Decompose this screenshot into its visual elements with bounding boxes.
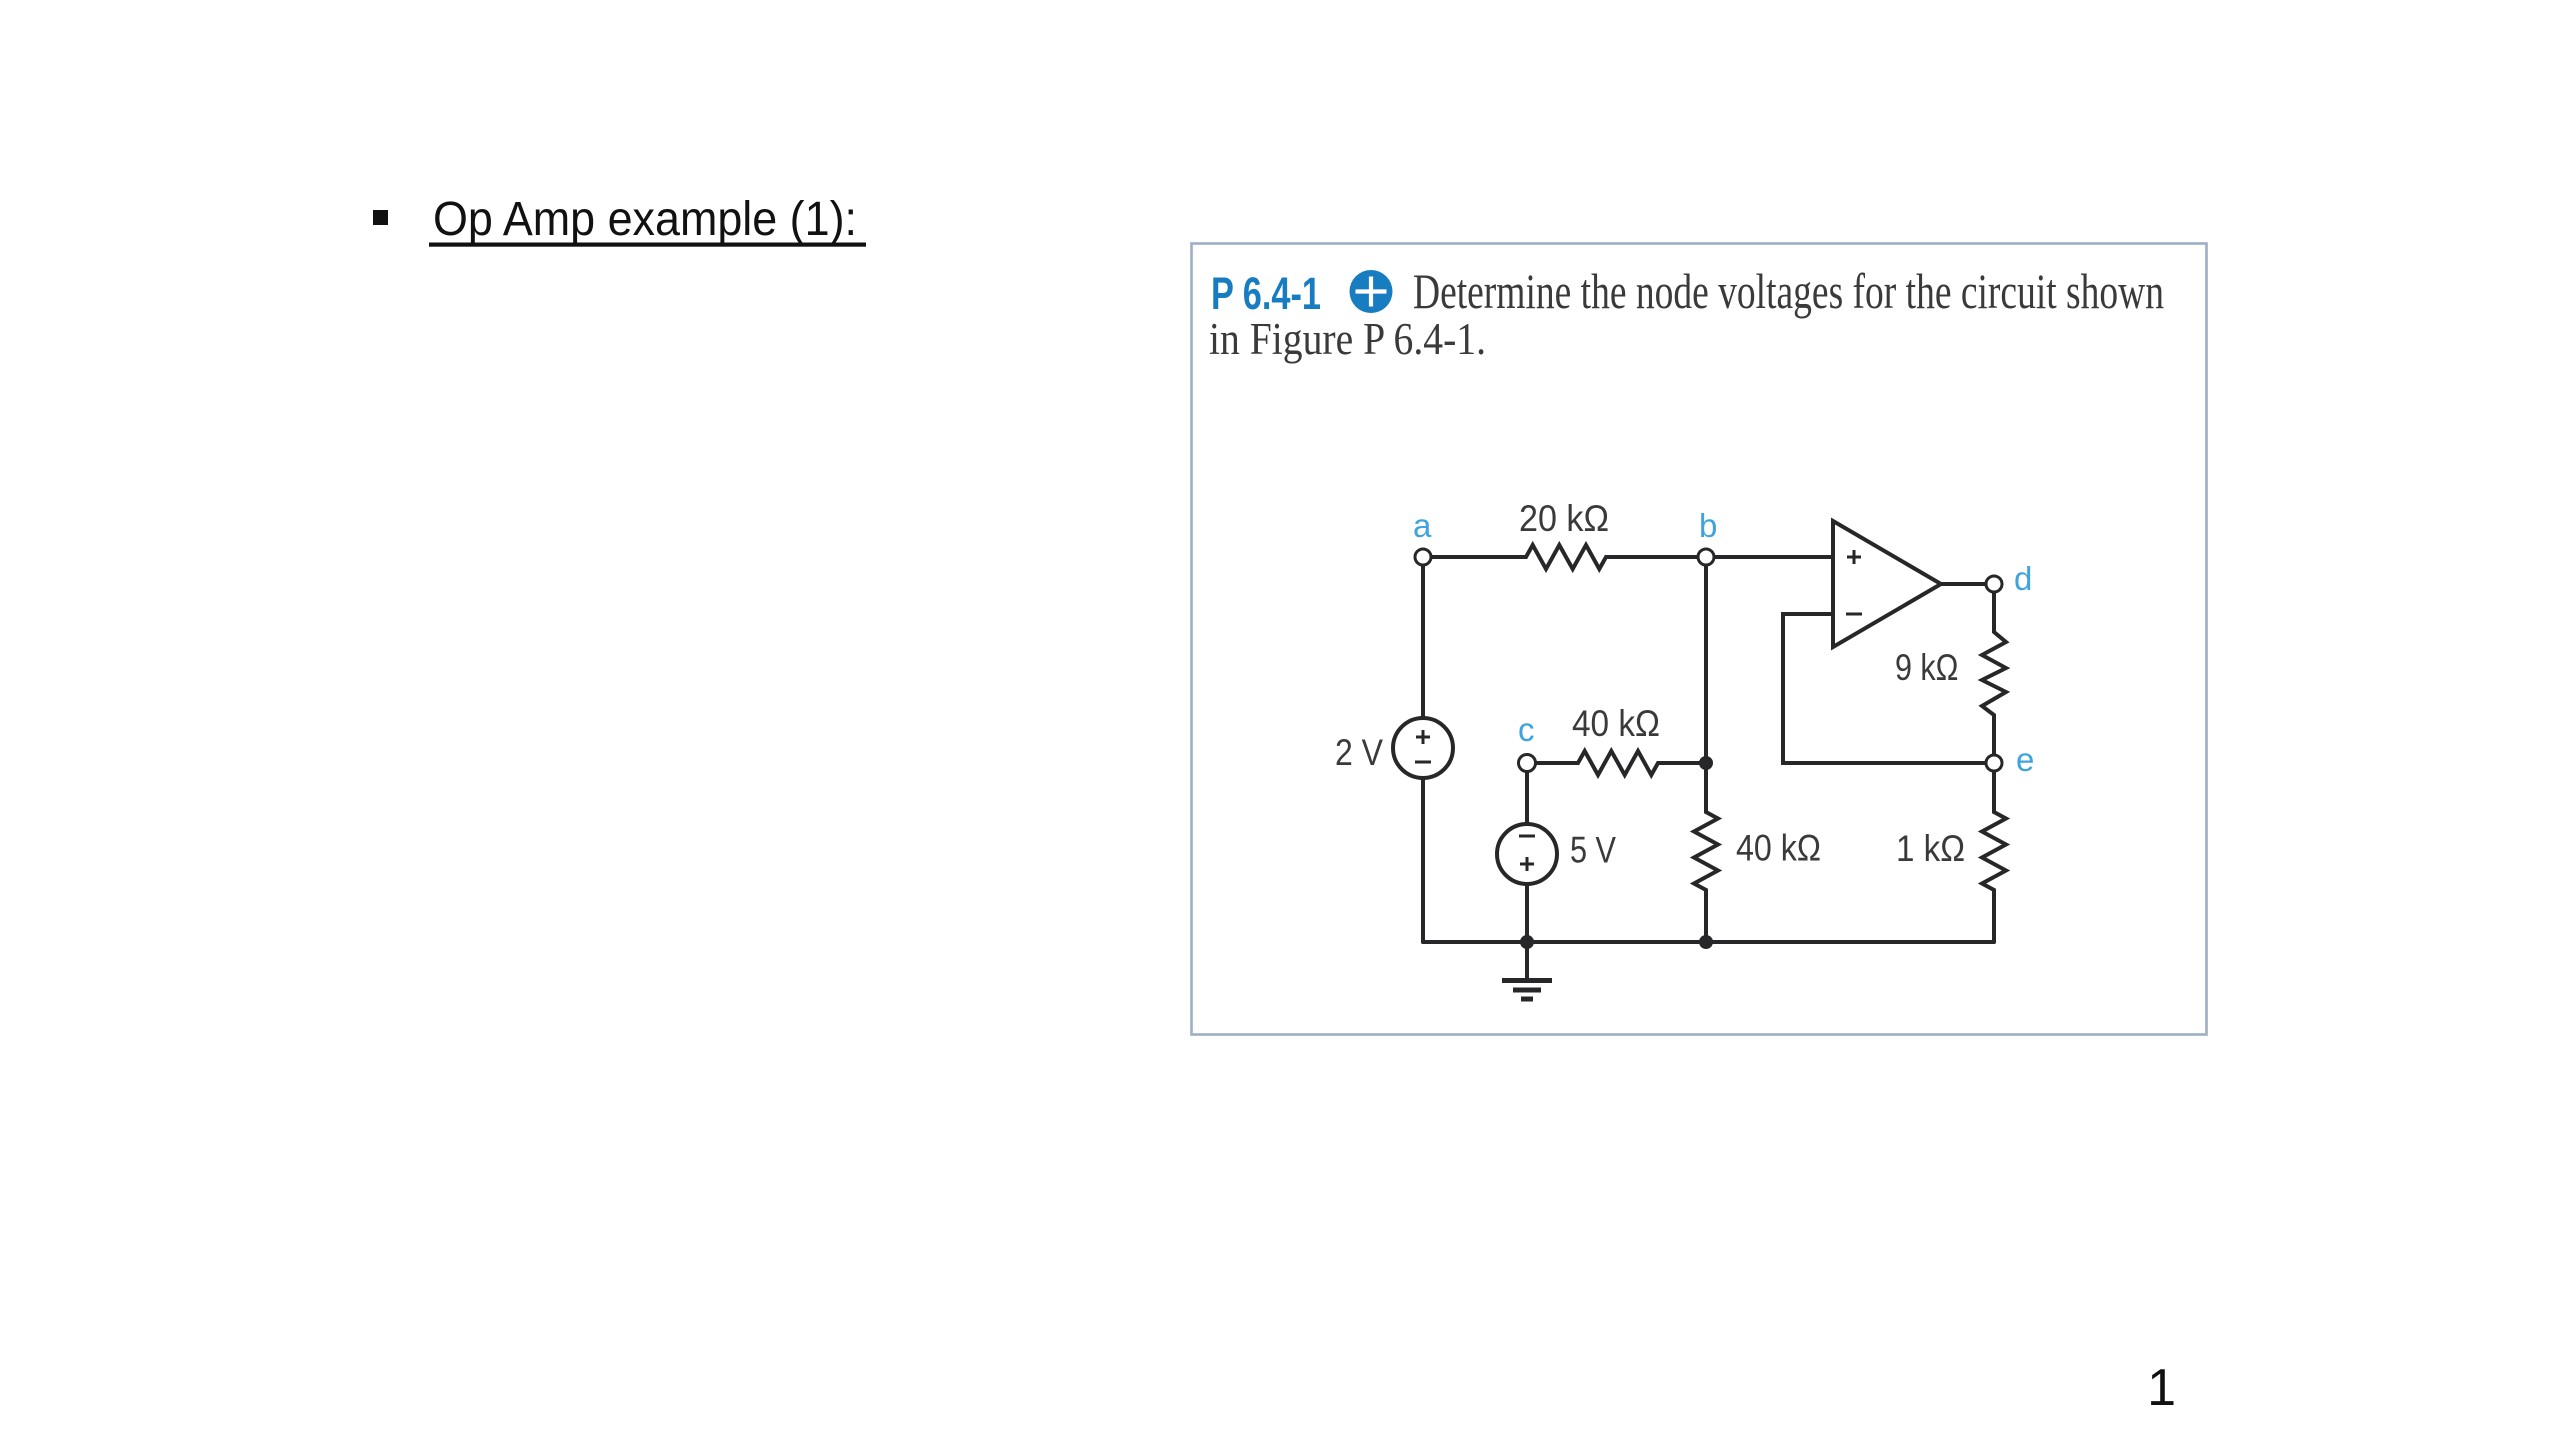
- svg-text:Determine the node voltages fo: Determine the node voltages for the circ…: [1413, 263, 2164, 319]
- svg-text:b: b: [1699, 507, 1717, 544]
- svg-text:2 V: 2 V: [1335, 732, 1383, 773]
- svg-text:1: 1: [2147, 1359, 2176, 1417]
- svg-text:5 V: 5 V: [1570, 830, 1616, 871]
- svg-text:20 kΩ: 20 kΩ: [1519, 498, 1609, 539]
- svg-text:1 kΩ: 1 kΩ: [1896, 828, 1965, 869]
- svg-text:e: e: [2016, 741, 2034, 778]
- svg-text:40 kΩ: 40 kΩ: [1572, 703, 1660, 744]
- svg-text:d: d: [2014, 560, 2032, 597]
- svg-text:a: a: [1413, 507, 1432, 544]
- svg-text:P 6.4-1: P 6.4-1: [1211, 268, 1321, 319]
- svg-text:9 kΩ: 9 kΩ: [1895, 647, 1959, 688]
- svg-text:Op Amp example (1):: Op Amp example (1):: [433, 193, 857, 246]
- svg-text:c: c: [1518, 711, 1535, 748]
- svg-text:in Figure P 6.4-1.: in Figure P 6.4-1.: [1209, 314, 1486, 364]
- svg-text:40 kΩ: 40 kΩ: [1736, 828, 1821, 869]
